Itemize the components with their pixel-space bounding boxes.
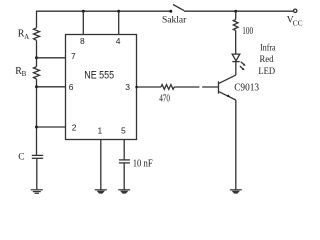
- wire pin2 connection: [37, 126, 66, 128]
- svg-text:100: 100: [242, 26, 253, 37]
- wire top rail right segment (switch to Vcc terminal): [184, 10, 294, 12]
- svg-text:A: A: [24, 33, 29, 41]
- svg-text:Red: Red: [260, 55, 274, 65]
- wire 10nF to ground: [123, 163, 125, 190]
- ground symbol under emitter: [230, 190, 242, 194]
- svg-text:5: 5: [121, 125, 126, 135]
- LED D1 triangle: [232, 54, 240, 61]
- LED D1 emission arrow 2: [240, 66, 243, 69]
- resistor RA zigzag: [34, 28, 40, 41]
- svg-text:4: 4: [116, 36, 121, 46]
- wire collector up to LED: [235, 62, 237, 76]
- op-amp/IC U1 NE555 box: [66, 35, 137, 140]
- node junction dot pin3 at box edge: [135, 86, 138, 89]
- capacitor C2 10nF plates: [119, 159, 130, 161]
- svg-text:10 nF: 10 nF: [133, 158, 153, 169]
- wire pin6 connection: [37, 86, 66, 88]
- ground symbol under 10nF: [118, 190, 130, 194]
- node Vcc terminal circle: [294, 9, 297, 12]
- wire C to ground: [36, 158, 38, 189]
- wire RA to RB segment: [36, 40, 38, 66]
- svg-text:LED: LED: [258, 67, 275, 77]
- switch S1 lever (open blade): [173, 5, 184, 11]
- wire rail to 100 resistor: [235, 11, 237, 19]
- svg-text:C9013: C9013: [234, 82, 259, 94]
- LED D1 cathode bar: [232, 61, 239, 63]
- resistor R3 470 zigzag: [161, 85, 174, 90]
- pin 8 stub: [82, 11, 84, 34]
- wire top rail left segment (Vcc rail from left branch to switch contact): [37, 11, 170, 28]
- node junction dot pin8 rail: [82, 10, 85, 13]
- pin 5 stub wire to 10nF capacitor: [123, 140, 125, 160]
- svg-text:1: 1: [98, 125, 103, 135]
- pin 4 stub: [118, 11, 120, 34]
- label RB: [15, 66, 26, 78]
- resistor RB zigzag: [34, 67, 40, 80]
- svg-text:C: C: [18, 153, 24, 163]
- wire 100 to LED anode: [235, 31, 237, 55]
- svg-text:8: 8: [80, 36, 85, 46]
- svg-text:470: 470: [159, 94, 170, 105]
- transistor Q1 emitter diagonal: [219, 91, 236, 100]
- node junction dot pin2: [35, 126, 38, 129]
- transistor Q1 C9013 base bar: [218, 81, 220, 93]
- wire RB down to capacitor C: [36, 79, 38, 155]
- LED D1 emission arrow 1: [241, 62, 245, 65]
- svg-text:CC: CC: [293, 18, 303, 27]
- svg-text:B: B: [22, 70, 27, 78]
- node junction dot pin4 rail: [117, 10, 120, 13]
- svg-text:7: 7: [71, 51, 76, 61]
- label Infra Red LED: [258, 43, 276, 78]
- pin 1 stub wire down to ground: [100, 140, 102, 190]
- wire pin3 to 470 resistor: [137, 86, 162, 88]
- wire pin7 connection: [37, 57, 66, 59]
- ground symbol under C: [31, 190, 43, 194]
- node junction dot pin6: [35, 85, 38, 88]
- node junction dot pin7: [35, 56, 38, 59]
- resistor R4 100 zigzag: [233, 20, 238, 31]
- svg-text:3: 3: [125, 82, 130, 92]
- svg-text:2: 2: [72, 123, 77, 133]
- node junction dot 100-resistor branch: [234, 10, 237, 13]
- svg-text:6: 6: [69, 82, 74, 92]
- svg-text:Saklar: Saklar: [162, 15, 186, 25]
- svg-text:NE 555: NE 555: [84, 70, 114, 82]
- capacitor C plates: [32, 154, 43, 156]
- transistor Q1 collector diagonal: [219, 75, 236, 84]
- svg-text:Infra: Infra: [260, 43, 276, 54]
- switch S1 contact dot: [169, 10, 172, 13]
- ground symbol under pin 1: [95, 190, 107, 194]
- wire emitter down to ground: [235, 100, 237, 190]
- wire 470 to transistor base (with small gap): [174, 86, 199, 88]
- transistor Q1 emitter arrow: [227, 94, 230, 97]
- label Vcc: [287, 15, 303, 27]
- label RA: [18, 29, 29, 41]
